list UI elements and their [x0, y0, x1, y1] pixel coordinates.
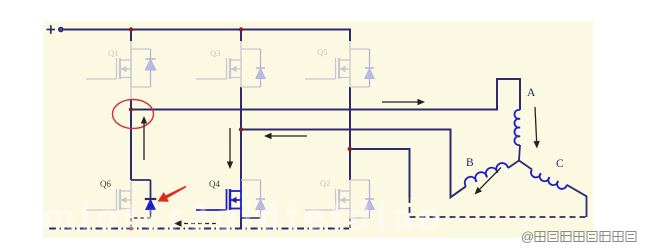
background panel — [43, 21, 593, 238]
current arrow down through winding A — [533, 107, 539, 149]
body diode of Q4 (faded) — [256, 180, 265, 218]
wire leg1 faded segment through Q1 — [130, 41, 132, 100]
node leg2 phase-B junction — [239, 127, 243, 131]
bottom supply rail (dash-dot) — [49, 228, 349, 230]
current arrow left toward Q4 — [264, 133, 307, 139]
svg-text:@: @ — [521, 229, 534, 244]
node leg2 top junction — [239, 27, 243, 31]
node phase-C wire from leg3 — [350, 149, 410, 197]
node phase-A rail wire — [131, 79, 520, 110]
wire leg3 faded segment above Q5 — [349, 41, 351, 49]
winding A coil — [514, 110, 520, 145]
node leg3 phase-C junction — [348, 147, 352, 151]
transistor Q6 channel (faded, off) — [86, 182, 131, 216]
wire leg2 faded segment above Q3 — [240, 41, 242, 49]
wire leg1 midpoint to Q6 — [130, 100, 132, 180]
body diode of Q5 (faded) — [365, 49, 374, 87]
node Q6 source rail junction — [129, 227, 133, 231]
body diode of Q3 (faded) — [256, 49, 265, 87]
wire leg2 Q4 source to rail — [240, 218, 242, 229]
wire leg2 drain stub — [240, 30, 242, 42]
winding B coil — [463, 161, 508, 186]
winding C coil — [529, 169, 567, 190]
transistor Q3 — [196, 49, 261, 87]
wire leg1 drain stub — [130, 30, 132, 42]
top supply rail wire — [64, 30, 351, 42]
body diode of Q1 (faded) — [145, 49, 156, 87]
current arrow down into Q4 — [227, 128, 233, 169]
wire A coil to star center — [519, 145, 520, 161]
current arrow up through Q6 diode — [141, 116, 147, 160]
faint big watermark — [42, 196, 446, 238]
current arrow right toward winding A — [382, 99, 425, 105]
wire B coil to star center — [508, 161, 519, 169]
plus terminal label — [47, 25, 56, 34]
node leg1 top junction — [129, 27, 133, 31]
dashed source connection of Q6 — [131, 214, 151, 229]
transistor Q4 — [196, 180, 261, 218]
node leg1 phase-A junction — [129, 107, 133, 111]
node phase-B rail wire — [241, 130, 466, 198]
wire leg3 dashed source of Q2 to rail — [349, 218, 351, 229]
transistor Q1 — [86, 49, 151, 87]
input terminal circle — [59, 28, 63, 32]
red highlight ellipse on node — [113, 100, 154, 129]
body diode of Q6 (conducting, solid blue) — [131, 180, 156, 214]
current arrow left along bottom rail — [174, 220, 216, 226]
body diode of Q2 (faded) — [365, 180, 374, 218]
wire leg2 Q3 to Q4 — [240, 87, 242, 180]
current arrow along winding B — [475, 168, 502, 195]
wire star center to C coil — [519, 161, 532, 170]
wire leg3 Q5 to Q2 — [349, 87, 351, 180]
dashed inactive phase-C return wire — [410, 197, 587, 217]
transistor Q5 — [305, 49, 370, 87]
transistor Q2 — [305, 180, 370, 218]
red pointer arrow at Q6 body diode — [158, 186, 187, 202]
wire C end corner — [567, 185, 587, 217]
